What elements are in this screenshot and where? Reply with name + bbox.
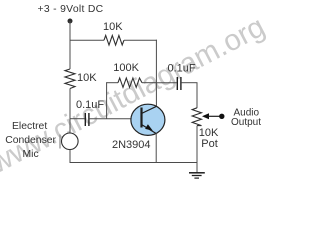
wire supply dot down to top rail [69,21,71,40]
svg-text:10K: 10K [77,72,97,84]
wire collector column [155,40,157,107]
wire mic bottom lead [69,150,71,163]
ground bar 3 [194,177,199,179]
svg-text:Condenser: Condenser [5,135,56,146]
wire mic top lead [69,119,71,134]
ground bar 1 [189,172,205,174]
transistor Q1 2N3904 body [131,104,165,135]
wire wiper to output dot [208,115,222,117]
node V+ supply dot [68,19,73,24]
capacitor C1 right plate [88,113,90,126]
svg-text:0.1uF: 0.1uF [76,99,104,111]
ground bar 2 [192,175,202,177]
wire 100K left vertical down to base row [106,82,108,119]
capacitor C1 0.1uF (input) left plate [84,113,86,126]
transistor base bar [140,108,142,128]
svg-text:Output: Output [231,117,261,128]
microphone MIC electret condenser body [62,133,79,150]
transistor collector stroke [142,106,157,113]
svg-text:100K: 100K [113,62,139,74]
node audio output dot [219,114,224,119]
wire top rail right segment [124,39,157,41]
wire pot column upper [196,83,198,108]
transistor emitter stroke [142,125,156,134]
ground stem [196,163,198,173]
wire left column upper [69,40,71,69]
wire bottom rail [70,162,197,164]
svg-text:2N3904: 2N3904 [112,139,151,151]
wire base row left [70,118,85,120]
wire emitter down to ground rail [155,133,157,162]
pot wiper arrow [202,113,209,119]
wire top rail left segment [70,39,105,41]
wire mid row left (100K left corner) [107,82,118,84]
resistor R3 100K (horizontal) [118,78,142,87]
resistor R1 10K (top, horizontal) [104,35,124,45]
potentiometer R4 10K vertical zigzag [192,108,201,126]
wire output cap to pot column [182,82,198,84]
wire pot bottom to ground rail [196,126,198,163]
wire collector junction to output cap [156,82,176,84]
wire mid row right of 100K to collector column [142,82,156,84]
wire base row right to transistor base [90,118,132,120]
resistor R2 10K (left, vertical) [65,69,75,89]
svg-text:0.1uF: 0.1uF [168,62,196,74]
wire left column lower to base row [69,89,71,119]
mic side bar [59,135,61,149]
svg-text:10K: 10K [103,21,123,33]
svg-text:Pot: Pot [201,138,218,150]
svg-text:Electret: Electret [12,121,47,132]
svg-text:+3 - 9Volt DC: +3 - 9Volt DC [38,4,104,15]
capacitor C2 0.1uF (output) left plate [176,77,178,90]
capacitor C2 right plate [180,77,182,90]
svg-text:Mic: Mic [23,149,39,160]
transistor emitter arrowhead [145,124,153,130]
